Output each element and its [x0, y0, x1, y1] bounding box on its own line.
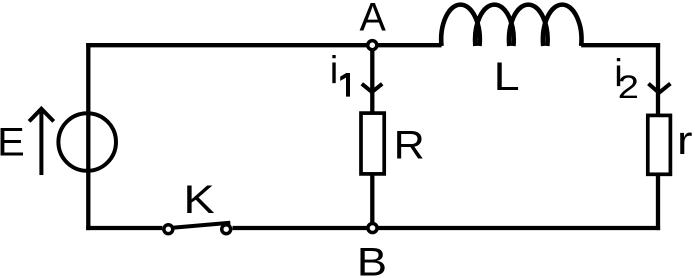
- label i1 subscript: [340, 73, 350, 97]
- current arrow i1: [362, 84, 382, 92]
- svg-text:2: 2: [618, 70, 639, 106]
- switch K contact right: [222, 225, 231, 234]
- resistor r: [648, 115, 671, 174]
- svg-text:E: E: [0, 119, 25, 164]
- svg-text:L: L: [493, 56, 519, 100]
- source E circle: [58, 113, 116, 171]
- svg-text:i: i: [330, 49, 339, 92]
- current arrow i2: [648, 84, 670, 93]
- wire right side upper: [656, 43, 660, 117]
- source E arrow: [29, 109, 54, 175]
- wire bottom left (switch to corner): [86, 226, 162, 230]
- wire node A branch lower: [370, 172, 374, 228]
- inductor L: [441, 5, 581, 46]
- resistor R: [361, 113, 384, 174]
- wire left side: [86, 43, 90, 230]
- switch K blade: [173, 223, 231, 228]
- svg-text:B: B: [357, 240, 387, 278]
- wire top right segment: [581, 43, 660, 47]
- svg-text:r: r: [677, 119, 693, 163]
- wire bottom right (corner to switch): [233, 226, 661, 230]
- node B: [368, 223, 377, 232]
- svg-text:A: A: [359, 0, 386, 39]
- wire right side lower: [656, 172, 660, 230]
- wire node A branch upper: [370, 45, 374, 116]
- svg-text:R: R: [394, 123, 425, 167]
- node A: [368, 41, 377, 50]
- svg-text:K: K: [183, 179, 214, 223]
- wire top (left segment to inductor): [86, 43, 441, 47]
- switch K contact left: [164, 225, 173, 234]
